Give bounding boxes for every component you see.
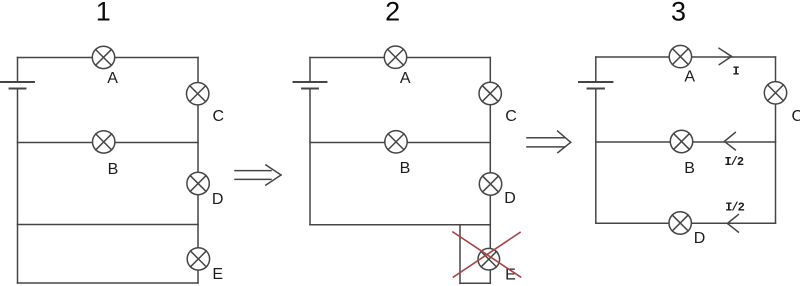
circuit 3 middle wire (lamp B branch) — [596, 141, 776, 143]
circuit 1 bottom wire — [18, 282, 199, 284]
circuit 1 middle wire (lamp B branch) — [18, 142, 199, 144]
transformation double arrow 1 — [235, 165, 281, 185]
battery cell circuit 1: short plate — [10, 88, 26, 90]
svg-text:C: C — [505, 108, 517, 125]
circuit 2 left wire lower segment — [309, 89, 311, 225]
circuit 2 middle wire (lamp B branch) — [310, 142, 490, 144]
svg-text:A: A — [684, 69, 695, 86]
svg-text:B: B — [400, 160, 411, 177]
lamp C circuit 2 — [479, 82, 501, 104]
svg-text:B: B — [684, 160, 695, 177]
lamp B circuit 2 — [385, 131, 407, 153]
svg-text:I: I — [732, 65, 739, 79]
circuit 2 second middle wire — [310, 224, 490, 226]
lamp E circuit 2 — [478, 248, 500, 270]
lamp B circuit 3 — [670, 130, 692, 152]
battery cell circuit 3: long plate — [579, 81, 613, 83]
svg-text:A: A — [107, 70, 118, 87]
current arrow on circuit 3 middle wire (points left) — [724, 132, 735, 150]
circuit 1 top wire — [18, 57, 199, 59]
lamp E circuit 1 — [187, 248, 209, 270]
circuit 2 top wire — [310, 57, 490, 59]
svg-text:C: C — [213, 108, 225, 125]
lamp C circuit 3 — [764, 82, 786, 104]
lamp D circuit 2 — [479, 173, 501, 195]
circuit 2 lower-loop bottom wire — [460, 282, 490, 284]
svg-text:I/2: I/2 — [725, 201, 744, 215]
lamp A circuit 1 — [92, 46, 114, 68]
current arrow on circuit 3 bottom wire (points left) — [727, 215, 738, 233]
circuit 3 left wire lower segment — [595, 89, 597, 224]
svg-text:D: D — [504, 190, 516, 207]
battery cell circuit 2: long plate — [294, 81, 327, 83]
circuit 3 left wire upper segment — [595, 57, 597, 82]
circuit 3 bottom wire (lamp D branch) — [596, 222, 776, 224]
lamp B circuit 1 — [93, 131, 115, 153]
battery cell circuit 2: short plate — [302, 88, 318, 90]
lamp D circuit 3 — [669, 212, 691, 234]
transformation double arrow 2 — [527, 131, 571, 153]
circuit 1 left wire upper segment — [17, 58, 19, 83]
current arrow on circuit 3 top wire (points right) — [719, 48, 732, 64]
red cross-out over lamp E circuit 2 — [453, 232, 521, 277]
lamp C circuit 1 — [187, 83, 209, 105]
svg-text:3: 3 — [671, 0, 686, 27]
circuit 1 left wire lower segment — [17, 89, 19, 284]
svg-text:E: E — [505, 267, 516, 284]
circuit 3 top wire — [596, 56, 776, 58]
battery cell circuit 3: short plate — [588, 88, 605, 90]
svg-text:1: 1 — [96, 0, 111, 26]
svg-text:B: B — [108, 161, 119, 178]
svg-text:A: A — [400, 70, 411, 87]
battery cell circuit 1: long plate — [1, 81, 34, 83]
svg-text:E: E — [212, 266, 223, 283]
circuit 1 second middle wire — [18, 224, 199, 226]
svg-text:D: D — [212, 191, 224, 208]
circuit 1 right wire — [197, 58, 199, 284]
svg-text:C: C — [792, 108, 800, 125]
svg-text:I/2: I/2 — [724, 155, 743, 169]
svg-text:D: D — [694, 230, 706, 247]
circuit 2 left wire upper segment — [309, 58, 311, 83]
circuit 3 right wire — [775, 57, 777, 223]
lamp A circuit 3 — [669, 45, 691, 67]
lamp A circuit 2 — [384, 46, 406, 68]
circuit 2 right wire — [489, 58, 491, 284]
lamp D circuit 1 — [187, 172, 209, 194]
svg-text:2: 2 — [385, 0, 400, 27]
circuit 2 lower-loop left wire — [459, 225, 461, 284]
